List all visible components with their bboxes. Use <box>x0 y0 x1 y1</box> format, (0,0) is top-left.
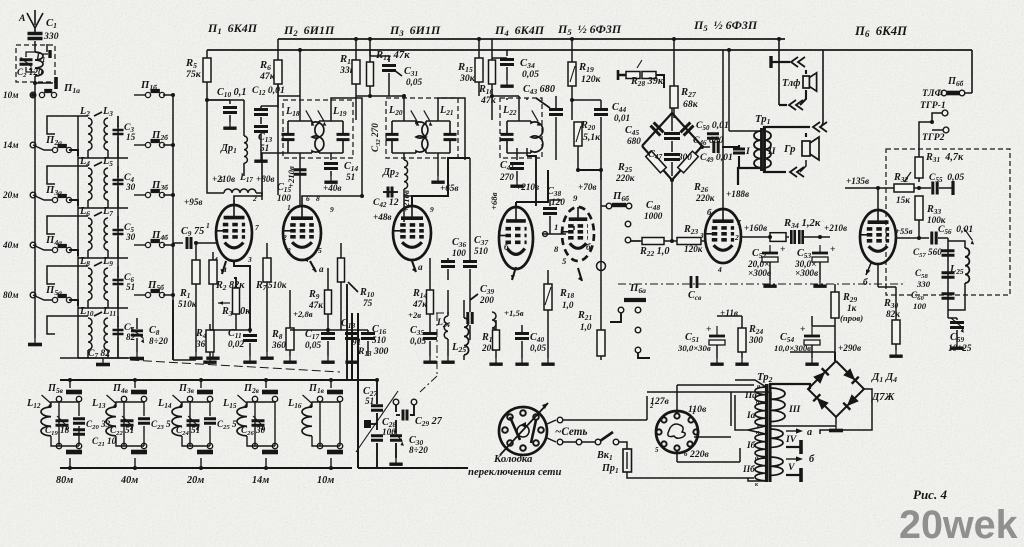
diode D3 <box>843 394 859 410</box>
svg-text:С21 10: С21 10 <box>92 436 117 448</box>
svg-text:R13 300: R13 300 <box>357 346 389 358</box>
svg-text:+160в: +160в <box>744 223 767 233</box>
svg-text:С54: С54 <box>780 332 794 344</box>
svg-text:С29 27: С29 27 <box>415 416 443 428</box>
svg-text:82: 82 <box>126 332 136 342</box>
anode wire tube P1 <box>233 200 235 205</box>
left matrix long rails <box>77 116 79 358</box>
svg-text:б: б <box>707 207 712 217</box>
svg-text:20wek: 20wek <box>899 503 1018 547</box>
cell wires 14м <box>247 402 255 407</box>
svg-text:R31 4,7к: R31 4,7к <box>925 152 964 164</box>
cathode to R4 <box>234 261 250 330</box>
switch contact P2b <box>145 142 150 147</box>
svg-text:8÷20: 8÷20 <box>409 445 428 455</box>
svg-text:R2 82к: R2 82к <box>215 280 245 292</box>
svg-text:Тлф: Тлф <box>782 78 800 89</box>
svg-text:+210в: +210в <box>212 174 235 184</box>
cap C50 on line <box>722 145 739 147</box>
right switch bus <box>172 95 174 360</box>
svg-text:С40: С40 <box>530 332 544 344</box>
svg-text:100: 100 <box>452 248 466 258</box>
svg-text:R26: R26 <box>693 182 708 194</box>
svg-text:С2 120: С2 120 <box>17 67 43 79</box>
svg-text:20м: 20м <box>186 475 204 486</box>
svg-text:+95в: +95в <box>184 197 203 207</box>
tube P6 <box>860 210 896 264</box>
svg-text:С10 0,1: С10 0,1 <box>217 87 246 99</box>
svg-text:С43 680: С43 680 <box>523 84 555 96</box>
coupling cap Csv <box>691 276 697 288</box>
svg-text:8: 8 <box>554 244 559 254</box>
svg-text:10м: 10м <box>317 475 334 486</box>
svg-text:Гр: Гр <box>783 143 796 155</box>
cell wires 20м <box>182 402 190 407</box>
svg-text:С42 12: С42 12 <box>373 197 399 209</box>
svg-text:+48в: +48в <box>373 212 392 222</box>
socket diagonal axis <box>500 403 548 455</box>
long vertical x601 <box>600 170 602 310</box>
wire C44 R20 node to P5 grid <box>578 169 601 171</box>
svg-text:9: 9 <box>430 205 434 214</box>
svg-text:С44: С44 <box>612 102 626 114</box>
svg-text:П2 6И1П: П2 6И1П <box>283 23 335 38</box>
ground left column <box>102 357 104 359</box>
svg-text:30: 30 <box>125 182 136 192</box>
svg-text:5: 5 <box>562 256 567 266</box>
svg-text:R14: R14 <box>412 288 427 300</box>
svg-text:6: 6 <box>684 450 688 458</box>
switch contact P3в bottom <box>197 450 213 455</box>
svg-text:1: 1 <box>206 221 210 230</box>
wires IFT3 <box>518 96 520 121</box>
cathode arrow tube P4 <box>512 267 516 280</box>
wire L1 to switch column <box>34 76 36 95</box>
svg-text:П6 6К4П: П6 6К4П <box>854 24 908 39</box>
risers from mid to coil bank <box>346 284 348 380</box>
svg-text:120к: 120к <box>581 74 602 85</box>
svg-text:R1: R1 <box>179 288 190 300</box>
svg-text:30,0×30в: 30,0×30в <box>677 343 711 353</box>
cathode arrow tube P5t <box>578 268 582 281</box>
wire L19 top <box>331 98 362 196</box>
svg-text:0,02: 0,02 <box>228 339 244 349</box>
P6b jack circles <box>625 221 631 227</box>
phones speaker symbol <box>803 76 809 88</box>
Tr2 left winding IIb <box>755 458 766 481</box>
svg-text:1,0: 1,0 <box>562 300 574 310</box>
svg-text:IV: IV <box>785 434 798 445</box>
heater winding IV bottom terminal <box>786 446 800 448</box>
svg-text:П5в: П5в <box>47 383 64 395</box>
svg-text:+: + <box>800 324 806 335</box>
trimmer arrow L25 <box>964 228 973 240</box>
svg-text:30: 30 <box>125 232 136 242</box>
svg-text:100: 100 <box>913 301 927 311</box>
wires coil row <box>87 150 89 158</box>
svg-text:С22 51: С22 51 <box>110 425 134 437</box>
svg-text:L7: L7 <box>102 206 113 218</box>
svg-text:1,0: 1,0 <box>580 322 592 332</box>
wire P3 plate to IFT3 <box>412 158 470 206</box>
cell wires 40м <box>116 402 124 407</box>
mains wire row1 <box>563 419 647 421</box>
svg-text:С26 30: С26 30 <box>241 425 266 437</box>
svg-text:51: 51 <box>346 172 355 182</box>
switch contact P1a <box>35 82 53 84</box>
svg-text:П4в: П4в <box>112 383 129 395</box>
dashed box BFO <box>886 149 1010 295</box>
svg-text:С7 82: С7 82 <box>88 348 110 360</box>
svg-text:С18: С18 <box>341 318 355 330</box>
svg-text:П2в: П2в <box>243 383 260 395</box>
b-contact stubs <box>134 94 145 96</box>
svg-text:L12: L12 <box>26 398 41 410</box>
Tr2 left winding Ib <box>755 434 766 457</box>
svg-text:R32: R32 <box>893 172 908 184</box>
svg-text:R10: R10 <box>359 287 374 299</box>
svg-text:А: А <box>18 13 26 24</box>
svg-text:С39: С39 <box>480 284 494 296</box>
svg-text:80м: 80м <box>56 475 73 486</box>
capacitor C1 330 <box>28 34 43 39</box>
svg-text:С55 0,05: С55 0,05 <box>929 172 964 184</box>
svg-text:R28 39к: R28 39к <box>630 76 664 88</box>
svg-text:С57 560: С57 560 <box>913 247 942 259</box>
capacitor C7 82 <box>113 330 124 334</box>
svg-text:+65в: +65в <box>440 183 459 193</box>
svg-text:×300в: ×300в <box>795 268 818 278</box>
Tr2 winding III <box>770 388 785 422</box>
switch contact P1в bottom <box>327 450 343 455</box>
mains stubs from socket <box>547 420 556 424</box>
svg-text:С49 0,01: С49 0,01 <box>700 152 733 164</box>
svg-text:7: 7 <box>255 223 259 232</box>
svg-text:+210в: +210в <box>824 223 847 233</box>
dash-dot gang line vertical <box>436 313 438 376</box>
diode D4 <box>813 394 829 410</box>
Tr1 primary wires <box>729 130 761 132</box>
svg-text:1: 1 <box>554 222 558 232</box>
TGR2 jack circle <box>943 127 949 133</box>
selector wiring loop top2 <box>647 391 771 393</box>
svg-text:680: 680 <box>627 136 641 146</box>
tube P1 <box>216 205 252 261</box>
svg-text:+68в: +68в <box>489 192 499 210</box>
svg-text:47к: 47к <box>412 299 427 309</box>
capacitor C22 51 trimmer <box>121 421 134 425</box>
terminal in box <box>48 50 51 58</box>
svg-text:о: о <box>756 398 760 406</box>
Tr2 left winding IIa <box>755 387 766 402</box>
svg-text:С8: С8 <box>149 325 160 337</box>
svg-text:С24 51: С24 51 <box>176 425 200 437</box>
cathode arrow tube P3 <box>412 261 416 272</box>
cap stack riser <box>947 238 949 318</box>
coil bank top rail <box>60 379 352 381</box>
bridge right lead <box>820 389 872 434</box>
svg-text:П1в: П1в <box>308 383 325 395</box>
svg-text:+210в: +210в <box>516 182 539 192</box>
tube P2 <box>283 206 321 260</box>
open terminals <box>393 399 399 405</box>
svg-text:510: 510 <box>474 246 488 256</box>
svg-text:Ссв: Ссв <box>688 290 702 302</box>
tube P4 <box>499 207 533 269</box>
jack chevrons speaker top <box>813 122 827 132</box>
wire P2 plate to IFT2 primary <box>302 196 362 206</box>
svg-text:+70в: +70в <box>578 182 597 192</box>
switch contact P2в bottom <box>262 450 278 455</box>
tuning arrows IFT2 <box>411 110 417 121</box>
svg-text:5: 5 <box>318 246 322 255</box>
Tr1 secondary bottom wire <box>764 168 786 172</box>
Tr2 left winding Ia <box>755 403 766 426</box>
Tr2 winding V <box>770 457 783 475</box>
svg-text:L22: L22 <box>502 105 517 117</box>
wire R5 down <box>206 100 208 186</box>
heater tap b arrow <box>786 458 800 460</box>
Tr1 winding I <box>754 131 761 168</box>
socket pins <box>520 410 526 416</box>
mains selector socket circle <box>499 407 547 455</box>
svg-text:9: 9 <box>330 205 334 214</box>
svg-text:+1,5в: +1,5в <box>504 308 524 318</box>
svg-text:120к: 120к <box>684 244 703 254</box>
svg-text:С11: С11 <box>228 328 242 340</box>
vertical x823 <box>822 50 824 123</box>
plate feed <box>877 188 879 210</box>
coupling arrow <box>94 162 102 166</box>
cathode arrow tube P6 <box>866 263 871 275</box>
main ground bus verticals <box>60 357 68 359</box>
svg-text:127в: 127в <box>650 396 670 407</box>
svg-text:68к: 68к <box>683 99 699 110</box>
selector loop bottom <box>676 451 678 462</box>
svg-text:4: 4 <box>304 255 309 264</box>
svg-text:R16: R16 <box>478 84 493 96</box>
switch contact P3b <box>145 192 150 197</box>
coil bank bottom rail <box>60 467 352 469</box>
wires coil row <box>87 350 89 358</box>
svg-text:20м: 20м <box>2 190 18 200</box>
svg-text:Iа: Iа <box>746 410 756 420</box>
svg-text:2: 2 <box>734 233 739 242</box>
svg-text:270: 270 <box>499 172 514 182</box>
circle marker <box>597 262 606 271</box>
svg-text:1: 1 <box>287 203 291 212</box>
gang dash line <box>130 360 340 372</box>
svg-text:С36: С36 <box>452 237 466 249</box>
svg-text:110в: 110в <box>688 404 707 415</box>
svg-text:15: 15 <box>126 132 136 142</box>
TGR-1 jack circle <box>942 110 948 116</box>
svg-text:R24: R24 <box>748 324 763 336</box>
svg-text:С38: С38 <box>547 186 561 198</box>
ground bus left section <box>68 357 140 359</box>
svg-text:L3: L3 <box>102 106 113 118</box>
jack chevrons phones <box>791 57 805 67</box>
svg-text:220к: 220к <box>695 193 715 203</box>
svg-text:П5 ½ 6Ф3П: П5 ½ 6Ф3П <box>557 22 622 37</box>
svg-text:ТГР2: ТГР2 <box>922 132 945 143</box>
tube P3 <box>393 206 431 260</box>
svg-text:40м: 40м <box>2 240 18 250</box>
bridge wires <box>808 361 864 417</box>
svg-text:R29: R29 <box>842 292 857 304</box>
bridge bottom ground <box>835 417 837 424</box>
svg-text:С50 0,01: С50 0,01 <box>696 120 729 132</box>
diode D1 <box>813 368 829 384</box>
svg-text:75: 75 <box>363 298 373 308</box>
svg-text:С35: С35 <box>410 325 424 337</box>
svg-text:L14: L14 <box>157 398 172 410</box>
wires coil row <box>87 300 89 308</box>
svg-text:С53: С53 <box>797 248 811 260</box>
phones wires <box>805 70 807 74</box>
wires coil row <box>87 200 89 208</box>
svg-text:ТЛФ: ТЛФ <box>922 88 943 99</box>
ground C30 <box>395 458 397 463</box>
cell wires 80м <box>51 402 59 407</box>
svg-text:+: + <box>830 244 836 255</box>
svg-text:0,05: 0,05 <box>530 343 546 353</box>
svg-text:С19 18: С19 18 <box>45 425 70 437</box>
svg-text:П6б: П6б <box>947 76 964 88</box>
svg-text:б: б <box>504 242 509 252</box>
wire P4 plate up <box>515 202 517 207</box>
tuning arrow IFT3 <box>532 110 538 121</box>
svg-text:Iб: Iб <box>746 440 756 450</box>
svg-text:Д7Ж: Д7Ж <box>871 391 896 403</box>
svg-text:С45: С45 <box>625 125 639 137</box>
Tr2 core <box>765 384 768 482</box>
wire P5t plate to C38 <box>573 226 575 230</box>
svg-text:360: 360 <box>271 340 286 350</box>
wire antenna to L1 box <box>46 44 48 52</box>
svg-text:L5: L5 <box>102 156 113 168</box>
wire left column to bottom <box>34 330 36 338</box>
phones line ground bar <box>769 56 772 68</box>
svg-text:П3в: П3в <box>178 383 195 395</box>
svg-text:40м: 40м <box>120 475 138 486</box>
Tr2 winding IV <box>770 429 783 447</box>
svg-text:L19: L19 <box>332 106 347 118</box>
svg-text:0,05: 0,05 <box>406 77 422 87</box>
coil L1 <box>35 52 43 76</box>
capacitor C25 5 <box>204 419 216 423</box>
svg-text:200: 200 <box>479 295 494 305</box>
svg-text:82к: 82к <box>886 309 900 319</box>
svg-text:5,1к: 5,1к <box>583 132 601 143</box>
svg-text:III: III <box>788 404 802 415</box>
svg-text:+188в: +188в <box>726 189 749 199</box>
svg-text:Рис. 4: Рис. 4 <box>913 487 947 502</box>
capacitor C5 30 <box>113 230 124 234</box>
svg-text:5: 5 <box>655 446 659 454</box>
svg-text:L18: L18 <box>285 106 300 118</box>
right corner drop <box>971 50 973 93</box>
selector wiring loop top1 <box>677 384 754 386</box>
switch Vk1 lever <box>600 432 613 441</box>
shield slant line <box>356 391 398 452</box>
svg-text:С9 75: С9 75 <box>181 226 204 238</box>
cell wires 10м <box>312 402 320 407</box>
capacitor C24 51 trimmer <box>187 421 200 425</box>
bridge leads <box>671 162 673 176</box>
svg-text:1к: 1к <box>847 303 857 313</box>
wire bank to C27 cluster <box>352 379 377 381</box>
capacitor C3 15 <box>113 130 124 134</box>
svg-text:С48: С48 <box>646 200 660 212</box>
svg-text:51: 51 <box>126 282 135 292</box>
wires C8 <box>136 318 138 329</box>
svg-text:9: 9 <box>573 193 578 203</box>
svg-text:R4: R4 <box>195 328 207 340</box>
svg-text:б: б <box>863 277 868 287</box>
switch contact P1b <box>145 92 150 97</box>
capacitor C23 5 <box>138 419 150 423</box>
svg-text:120: 120 <box>551 197 565 207</box>
heater tap a arrow <box>786 430 800 432</box>
svg-text:7: 7 <box>737 218 741 227</box>
speaker bottom chevrons <box>790 167 804 177</box>
plain right branch <box>339 402 341 446</box>
svg-text:L16: L16 <box>287 398 302 410</box>
tube P5 triode half dashed <box>562 207 594 261</box>
coil bank risers <box>351 313 353 380</box>
svg-text:+80в: +80в <box>256 174 275 184</box>
svg-text:14м: 14м <box>252 475 269 486</box>
antenna A <box>27 13 35 28</box>
switch contact P4в bottom <box>131 450 147 455</box>
+135v rail <box>845 187 894 189</box>
svg-text:4: 4 <box>717 265 722 274</box>
svg-text:переключения сети: переключения сети <box>468 466 561 478</box>
svg-text:R33: R33 <box>926 204 941 216</box>
svg-text:L13: L13 <box>91 398 106 410</box>
svg-text:П3 6И1П: П3 6И1П <box>389 23 441 38</box>
svg-text:С14: С14 <box>344 161 358 173</box>
selector center blob <box>668 424 685 438</box>
svg-text:30к: 30к <box>459 73 476 84</box>
svg-text:+: + <box>780 244 786 255</box>
Tr1 winding II <box>764 131 771 168</box>
svg-text:R8: R8 <box>271 329 283 341</box>
vertical x779 <box>778 39 780 105</box>
capacitor C2 120 trimmer <box>20 60 33 64</box>
svg-text:0,01: 0,01 <box>614 113 630 123</box>
top supply bus A <box>207 49 972 51</box>
svg-text:II: II <box>767 146 777 157</box>
svg-text:Вк1: Вк1 <box>596 450 613 462</box>
wires to transformer primary <box>700 477 754 479</box>
svg-text:Др2: Др2 <box>382 167 399 179</box>
dashed box IFT2 <box>386 98 458 158</box>
svg-text:П5 ½ 6Ф3П: П5 ½ 6Ф3П <box>693 18 758 33</box>
coupling arrow <box>94 262 102 266</box>
capacitor C8 8-20 variable <box>131 331 143 335</box>
svg-text:Пр1: Пр1 <box>601 463 619 475</box>
Tr1 core <box>760 128 763 171</box>
switch contact P5b <box>145 292 150 297</box>
svg-text:L21: L21 <box>439 105 454 117</box>
svg-text:L25: L25 <box>949 264 964 276</box>
svg-text:+290в: +290в <box>838 343 861 353</box>
svg-text:3: 3 <box>247 255 252 264</box>
svg-text:С37: С37 <box>474 235 488 247</box>
svg-text:14м: 14м <box>3 140 18 150</box>
